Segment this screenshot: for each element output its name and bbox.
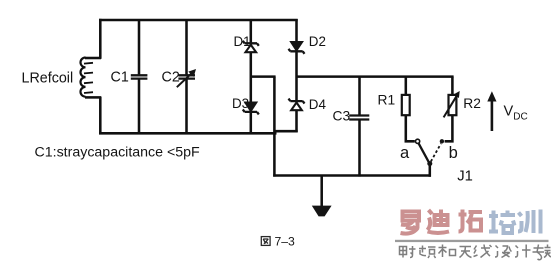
svg-text:D1: D1 xyxy=(234,34,251,49)
wire top rail xyxy=(99,19,298,22)
inductor L Refcoil xyxy=(80,58,85,97)
svg-text:7–3: 7–3 xyxy=(275,234,296,248)
wire D2 D4 branch xyxy=(295,19,298,43)
switch J1 common pole xyxy=(427,161,432,166)
wire R1 branch bottom to contact a xyxy=(406,115,415,142)
watermark small char 家 xyxy=(544,245,551,258)
diode D3 xyxy=(243,103,259,115)
wire D1 D3 branch xyxy=(250,19,253,44)
capacitor C2 arrowhead xyxy=(188,69,196,77)
diode D2 xyxy=(289,42,305,54)
svg-text:LRefcoil: LRefcoil xyxy=(22,71,74,87)
wire lower ground rail xyxy=(273,174,431,177)
resistor R2 (variable) xyxy=(449,95,457,115)
wire right section top rail xyxy=(296,75,454,78)
watermark small char 设 xyxy=(495,246,512,258)
svg-text:D4: D4 xyxy=(309,97,327,112)
switch J1 dashed throw to b xyxy=(431,144,441,162)
capacitor C2 (variable) xyxy=(177,73,195,88)
ground xyxy=(312,206,332,217)
resistor R2 arrow xyxy=(444,91,460,117)
watermark big char 拓 xyxy=(459,210,483,232)
svg-text:C1: C1 xyxy=(111,70,129,86)
wire left vertical (bottom) xyxy=(99,97,102,135)
wire C3 branch xyxy=(358,77,361,116)
watermark small char 频 xyxy=(419,246,436,259)
capacitor C1 xyxy=(131,75,148,78)
wire C1 branch xyxy=(138,19,141,75)
inductor crossover ticks xyxy=(84,63,93,93)
wire R2 branch bottom to contact b xyxy=(445,115,453,142)
wire D1-D3 midpoint jog xyxy=(250,75,276,78)
wire bottom rail xyxy=(99,132,277,135)
resistor R1 xyxy=(402,95,410,115)
svg-text:a: a xyxy=(400,144,410,162)
svg-text:C2: C2 xyxy=(162,70,180,86)
watermark big char 训 xyxy=(518,210,541,234)
wire ground stem xyxy=(320,177,323,207)
svg-text:b: b xyxy=(449,144,458,162)
wire inductor bottom jog xyxy=(85,96,101,99)
svg-text:D2: D2 xyxy=(309,34,326,49)
wire inductor top jog xyxy=(85,57,101,60)
watermark big char 易 xyxy=(401,212,420,234)
svg-text:VDC: VDC xyxy=(504,104,528,123)
svg-text:C3: C3 xyxy=(333,109,351,124)
svg-text:J1: J1 xyxy=(457,169,473,185)
switch J1 contact b xyxy=(440,139,444,143)
watermark big char 迪 xyxy=(428,210,450,234)
wire C2 branch xyxy=(185,19,188,75)
figure caption 图 7-3 glyph xyxy=(261,237,270,246)
svg-text:C1:straycapacitance <5pF: C1:straycapacitance <5pF xyxy=(35,144,201,160)
wire center drop (node to ground rail) xyxy=(273,77,276,177)
watermark small char 计 xyxy=(515,245,531,258)
switch J1 lever (closed to a) xyxy=(418,143,430,164)
VDC supply arrow xyxy=(487,91,496,131)
wire switch common drop xyxy=(429,164,432,177)
svg-text:D3: D3 xyxy=(232,96,249,111)
wire D4 bottom jog xyxy=(275,130,298,133)
wire R2 branch top xyxy=(451,77,454,96)
switch J1 contact a xyxy=(416,139,420,143)
watermark big char 培 xyxy=(489,211,515,234)
diode D1 xyxy=(243,41,259,52)
svg-text:R1: R1 xyxy=(378,93,396,108)
watermark small char 专 xyxy=(533,245,545,260)
wire R1 branch top xyxy=(405,77,408,96)
svg-text:R2: R2 xyxy=(463,96,481,111)
watermark small char 线 xyxy=(474,245,492,258)
watermark small char 射 xyxy=(400,246,416,258)
watermark small char 天 xyxy=(460,247,472,258)
watermark underline xyxy=(395,240,549,242)
wire left vertical (top) xyxy=(99,19,102,59)
diode D4 xyxy=(289,99,305,111)
capacitor C3 xyxy=(349,116,369,120)
watermark small char 和 xyxy=(439,245,456,258)
